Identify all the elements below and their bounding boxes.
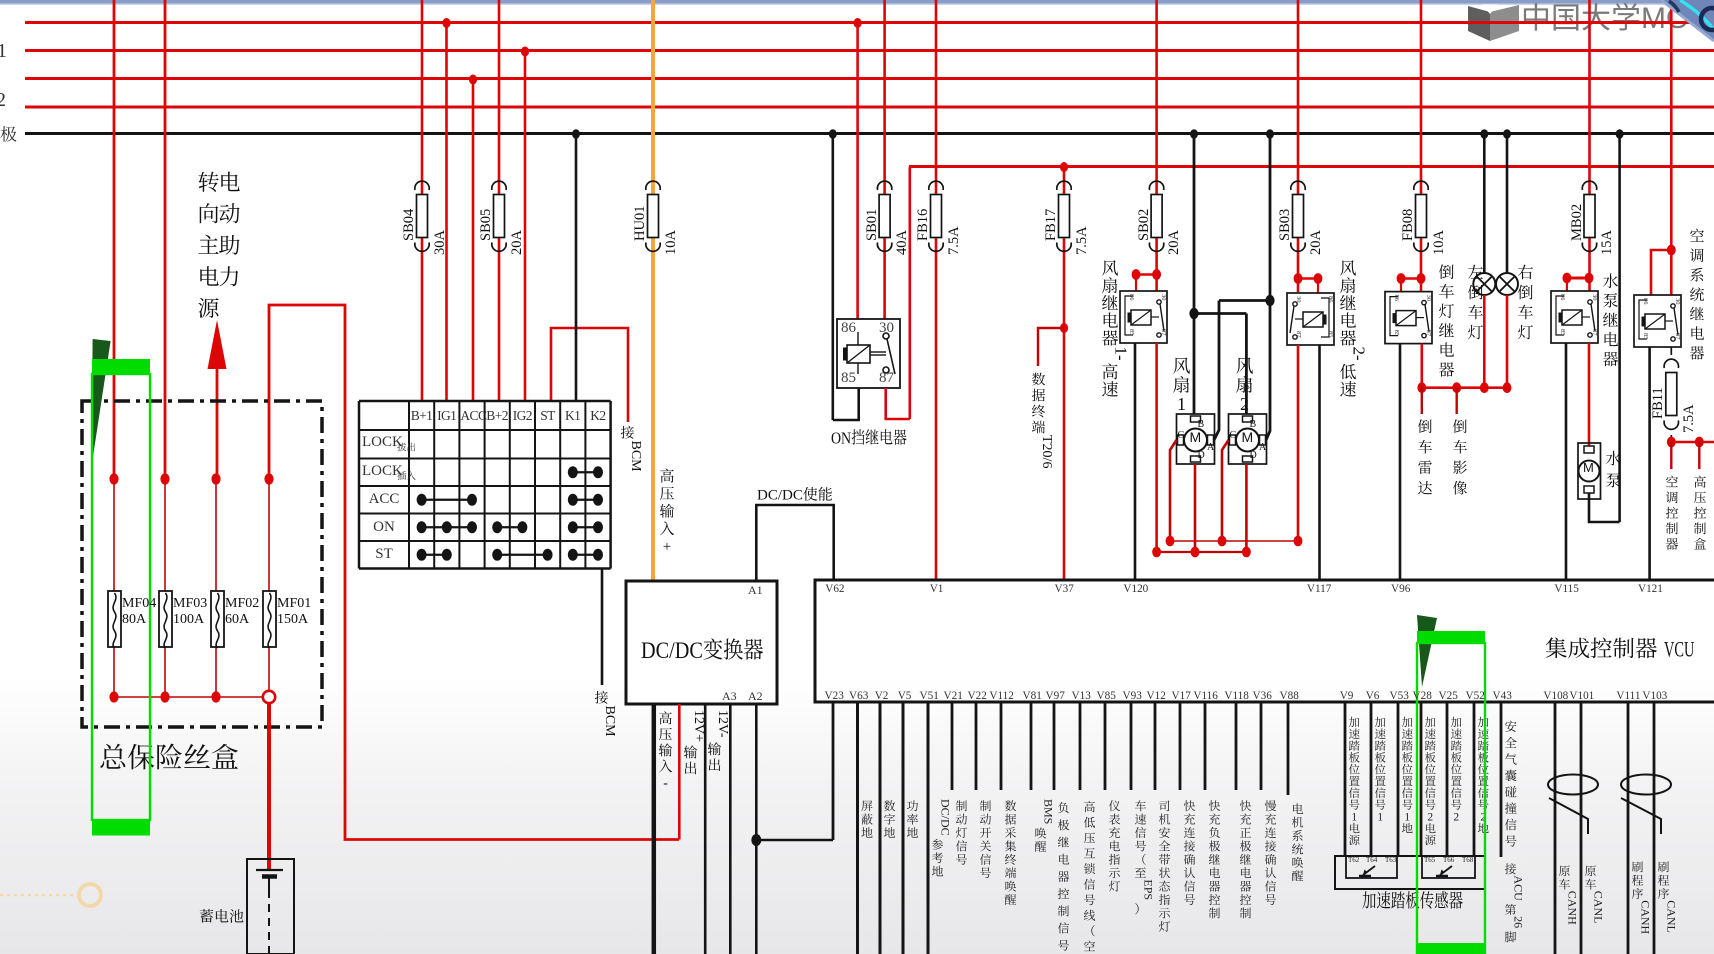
svg-text:85: 85	[1393, 330, 1400, 337]
svg-text:ACU: ACU	[1511, 875, 1525, 901]
svg-text:2-: 2-	[1349, 347, 1368, 362]
svg-text:T20/6: T20/6	[1039, 435, 1054, 468]
svg-text:1: 1	[1377, 811, 1383, 823]
svg-text:30: 30	[1591, 294, 1598, 301]
svg-text:1: 1	[1351, 811, 1357, 823]
svg-text:26: 26	[1511, 916, 1525, 928]
svg-text:DC/DC: DC/DC	[641, 638, 703, 663]
svg-text:12V-: 12V-	[715, 710, 730, 738]
svg-text:87: 87	[1674, 333, 1681, 340]
svg-text:CANH: CANH	[1638, 900, 1652, 934]
svg-text:85: 85	[1327, 331, 1334, 338]
svg-text:85: 85	[1642, 333, 1649, 340]
svg-text:+: +	[663, 539, 671, 555]
svg-text:VCU: VCU	[1664, 637, 1695, 662]
svg-text:87: 87	[1160, 329, 1167, 336]
svg-text:1: 1	[1404, 811, 1410, 823]
svg-text:86: 86	[1559, 294, 1566, 301]
svg-text:12V+: 12V+	[691, 710, 706, 742]
svg-text:87: 87	[1425, 330, 1432, 337]
svg-text:2: 2	[1453, 811, 1459, 823]
svg-text:BCM: BCM	[628, 441, 643, 473]
svg-text:86: 86	[1327, 296, 1334, 303]
svg-text:-: -	[663, 776, 668, 791]
svg-text:86: 86	[1642, 298, 1649, 305]
svg-text:86: 86	[1393, 295, 1400, 302]
svg-text:87: 87	[1591, 329, 1598, 336]
svg-text:EPS: EPS	[1141, 879, 1155, 900]
svg-text:30: 30	[1425, 295, 1432, 302]
svg-text:85: 85	[1128, 329, 1135, 336]
svg-text:CANL: CANL	[1591, 891, 1605, 924]
svg-text:1-: 1-	[1111, 347, 1130, 362]
svg-text:86: 86	[1128, 294, 1135, 301]
svg-text:85: 85	[1559, 329, 1566, 336]
svg-text:BCM: BCM	[602, 706, 617, 738]
svg-text:2: 2	[1427, 811, 1433, 823]
svg-text:DC/DC: DC/DC	[757, 488, 803, 504]
svg-text:CANL: CANL	[1664, 900, 1678, 933]
svg-text:BMS: BMS	[1041, 799, 1055, 824]
svg-text:ON: ON	[831, 429, 851, 448]
svg-text:87: 87	[1295, 331, 1302, 338]
svg-text:CANH: CANH	[1565, 891, 1579, 925]
svg-text:1: 1	[1177, 394, 1186, 414]
svg-text:DC/DC: DC/DC	[938, 799, 952, 836]
svg-text:30: 30	[1295, 296, 1302, 303]
svg-text:30: 30	[1674, 298, 1681, 305]
svg-text:30: 30	[1160, 294, 1167, 301]
